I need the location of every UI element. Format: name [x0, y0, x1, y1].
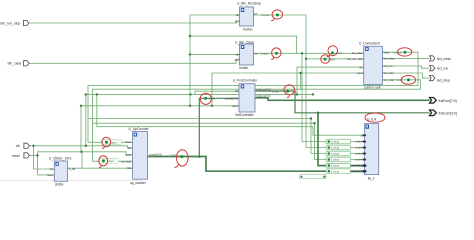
- debug marker fndCom out: [272, 90, 289, 94]
- svg-text:reset: reset: [125, 153, 131, 157]
- wire clk branch to U_Btn_RunStop clk: [190, 14, 239, 16]
- junction reset east riser: [211, 105, 213, 107]
- svg-text:count[13:0]: count[13:0]: [149, 152, 162, 156]
- wire net U_Btn_Clear out to control unit: [254, 52, 365, 54]
- ILA debug badge probe5: [326, 169, 351, 174]
- svg-text:U_Btn_Clear: U_Btn_Clear: [235, 41, 255, 45]
- svg-text:btn: btn: [235, 19, 239, 23]
- svg-text:led_stop: led_stop: [437, 79, 450, 83]
- svg-text:control_unit: control_unit: [364, 86, 381, 90]
- ILA debug badge probe2: [326, 151, 351, 156]
- svg-text:reset: reset: [357, 71, 363, 75]
- debug marker count to fnd: [204, 97, 216, 101]
- wire reset up branch: [38, 152, 133, 156]
- wire stub x=82: [81, 152, 83, 168]
- pin diamonds: [363, 134, 367, 136]
- svg-text:b_struct: b_struct: [331, 153, 340, 156]
- block U_Btn_Clear: [235, 41, 258, 70]
- svg-text:button: button: [239, 66, 248, 70]
- debug marker cu clear out: [394, 51, 407, 55]
- svg-text:clkDiv: clkDiv: [55, 183, 64, 187]
- svg-text:b_struct: b_struct: [331, 165, 340, 168]
- block U_Btn_RunStop: [235, 2, 261, 32]
- wire run_stop riser to ILA probe3: [93, 123, 364, 159]
- wire clk branch to U_FndController clk: [195, 91, 239, 94]
- junction clk btn_clear branch: [189, 53, 191, 55]
- wire btn_clear port to U_Btn_Clear btn pin: [29, 59, 240, 63]
- svg-text:clear: clear: [384, 50, 390, 54]
- junction clk riser top: [85, 93, 87, 95]
- block U_ClkDiv_10hz: [47, 156, 76, 186]
- svg-text:reset: reset: [232, 104, 238, 108]
- wire clk drop to clkDiv: [34, 146, 55, 169]
- debug marker counter run_stop in: [100, 159, 119, 164]
- svg-text:probe5[13:0]: probe5[13:0]: [349, 170, 364, 174]
- wire clk riser to ILA clk: [313, 127, 363, 136]
- wire led_run: [382, 66, 429, 68]
- svg-text:U_Btn_RunStop: U_Btn_RunStop: [237, 2, 261, 6]
- stub badge below ILA probe5: [300, 175, 327, 179]
- wire reset east to control unit: [212, 73, 364, 106]
- debug marker btn_run_stop out: [261, 13, 279, 17]
- svg-text:fndController: fndController: [236, 113, 255, 117]
- svg-text:1:output: 1:output: [261, 14, 270, 17]
- block U_FndController: [225, 79, 271, 117]
- svg-text:out: out: [254, 11, 258, 15]
- svg-text:fndFont[7:0]: fndFont[7:0]: [257, 94, 271, 98]
- svg-text:count[13:0]: count[13:0]: [225, 97, 238, 101]
- wire reset from port: [30, 154, 38, 156]
- wire clk branch to ILA via y=126.7: [97, 94, 313, 126]
- svg-text:1:outp: 1:outp: [170, 154, 177, 157]
- annotation red ellipse 8 counter clear: [102, 137, 111, 148]
- annotation red ellipse 10 count bus: [175, 150, 189, 168]
- svg-text:btn_run_stop: btn_run_stop: [347, 57, 363, 61]
- input port reset: [12, 153, 29, 158]
- junction reset fnd branch: [80, 105, 82, 107]
- ILA debug badge probe0: [326, 139, 351, 144]
- junction fndCom probe4: [317, 112, 320, 115]
- svg-text:fndCom[3:0]: fndCom[3:0]: [439, 112, 458, 116]
- annotation red ellipse 6 cu run_stop: [401, 76, 415, 85]
- svg-text:b_struct: b_struct: [331, 159, 340, 162]
- svg-text:clk: clk: [16, 144, 20, 148]
- wire btn_run_stop port to U_Btn_RunStop btn pin: [29, 21, 240, 23]
- wire clear net from control unit: [88, 52, 418, 142]
- ILA debug badge probe4: [326, 163, 351, 168]
- svg-text:run_stop: run_stop: [384, 78, 395, 82]
- annotation red ellipse 5 cu clear: [397, 48, 411, 56]
- debug marker cu btn_clear in: [331, 51, 343, 55]
- svg-text:out: out: [255, 52, 259, 56]
- svg-text:led_run: led_run: [437, 67, 448, 71]
- junction clk ila branch: [96, 93, 98, 95]
- annotation red ellipse 7 U_ILA title: [365, 113, 385, 122]
- svg-text:reset: reset: [12, 154, 20, 158]
- svg-text:btn: btn: [235, 58, 239, 62]
- wire clear riser to ILA probe2: [88, 119, 363, 154]
- wire reset to fndController: [81, 105, 239, 107]
- wire stub below reset junction: [300, 73, 302, 89]
- wire reset riser x=81: [80, 106, 82, 152]
- output bus port fndCom[3:0]: [430, 110, 458, 116]
- annotation red ellipse 12 fnd count in: [200, 93, 211, 104]
- annotation red ellipse 4 cu btn_run_stop: [321, 55, 330, 64]
- input port btn_clear: [8, 61, 30, 66]
- wire net U_Btn_RunStop out east: [253, 15, 307, 148]
- page boundary line: [0, 180, 142, 182]
- svg-text:1:output: 1:output: [260, 53, 269, 56]
- debug marker counter clear in: [103, 140, 122, 145]
- svg-text:reset: reset: [47, 173, 53, 177]
- svg-text:U_ClkDiv_10hz: U_ClkDiv_10hz: [49, 156, 72, 160]
- svg-text:1:input: 1:input: [209, 98, 216, 101]
- svg-text:1:outp: 1:outp: [272, 90, 279, 93]
- bus fndCom[3:0] to port: [255, 91, 430, 113]
- svg-text:led_stop: led_stop: [384, 71, 394, 75]
- ILA debug badge probe3: [326, 157, 351, 162]
- svg-text:up_counter: up_counter: [130, 181, 147, 185]
- svg-text:run_stop: run_stop: [121, 159, 132, 163]
- junction count riser bottom: [198, 155, 201, 158]
- svg-text:b_struct: b_struct: [331, 141, 340, 144]
- svg-text:ila_0: ila_0: [368, 176, 375, 180]
- debug marker count bus: [170, 154, 184, 158]
- annotation red ellipse 9 counter run_stop: [99, 156, 108, 168]
- bus count[13:0] to fndController: [199, 98, 239, 156]
- input port clk: [16, 143, 30, 148]
- input port btn_run_stop: [1, 20, 29, 25]
- junction reset port split: [36, 154, 38, 156]
- wire clk riser to control unit clk: [297, 67, 364, 94]
- wire btn_clear riser to ILA probe0: [302, 53, 363, 141]
- svg-text:led_clear: led_clear: [437, 57, 452, 61]
- wire led_clear: [382, 57, 429, 59]
- svg-text:button: button: [244, 27, 253, 31]
- junction btn_clear probe0: [301, 52, 303, 54]
- svg-text:probe4[3:0]: probe4[3:0]: [350, 164, 363, 168]
- svg-text:led_run: led_run: [384, 64, 393, 68]
- debug marker cu btn_run_stop in: [324, 58, 336, 62]
- svg-text:clear: clear: [125, 140, 131, 144]
- svg-text:b_struct: b_struct: [331, 170, 340, 173]
- junction clk cu riser: [296, 93, 298, 95]
- junction run_stop probe3 branch: [313, 122, 315, 124]
- junction clk port split: [32, 145, 34, 147]
- output port led_run: [430, 66, 449, 71]
- annotation red ellipse 3 cu btn_clear: [327, 45, 339, 57]
- wire clk branch y=36.1: [190, 36, 297, 53]
- svg-text:o_clk: o_clk: [69, 167, 76, 171]
- junction clk ila riser: [312, 93, 314, 95]
- svg-text:btn_clear: btn_clear: [352, 51, 363, 55]
- junction clk riser bottom: [85, 145, 87, 147]
- wire clkDiv o_clk to up_counter tick: [67, 167, 132, 169]
- output port led_clear: [430, 56, 452, 61]
- junction reset cu line: [299, 72, 301, 74]
- wire clk from port: [30, 146, 133, 148]
- svg-text:fndCom[3:0]: fndCom[3:0]: [257, 87, 271, 91]
- junction reset counter branch: [80, 151, 82, 153]
- block U_ControlUnit: [347, 42, 394, 90]
- svg-text:U_FndController: U_FndController: [233, 79, 258, 83]
- bus count[13:0] from up_counter: [148, 157, 364, 172]
- wire clk trunk vertical x=190: [189, 15, 191, 106]
- wire clk branch to U_Btn_Clear clk: [190, 53, 240, 55]
- junction clk main: [189, 93, 191, 95]
- block U_UpCounter: [121, 127, 162, 185]
- svg-text:led_clear: led_clear: [384, 57, 395, 61]
- debug marker btn_clear out: [260, 52, 278, 56]
- wire btn_run_stop to ILA probe1: [306, 147, 363, 149]
- wire clk main horizontal y=94.8: [86, 93, 313, 95]
- junction clear probe2 branch: [310, 117, 312, 119]
- junction btn_run_stop cu: [305, 58, 307, 60]
- wire run_stop net from control unit: [93, 80, 421, 161]
- wire clk north riser x=85.8: [85, 94, 87, 145]
- output bus port fndFont[7:0]: [430, 98, 457, 104]
- debug marker cu run_stop out: [396, 78, 410, 82]
- svg-text:btn_run_stop: btn_run_stop: [1, 21, 21, 25]
- junction clk y36 branch: [189, 35, 191, 37]
- wire led_stop: [382, 73, 429, 78]
- annotation red ellipse 1 btn_run_stop out: [271, 10, 282, 21]
- output port led_stop: [430, 76, 450, 83]
- svg-text:b_struct: b_struct: [331, 147, 340, 150]
- annotation red ellipse 11 fndCom out: [284, 85, 295, 98]
- bus fndCom riser to ILA probe4: [318, 113, 363, 166]
- svg-text:btn_clear: btn_clear: [8, 62, 23, 66]
- block U_ILA: [349, 117, 379, 180]
- ILA debug badge probe1: [326, 145, 351, 150]
- pin stubs all blocks: [53, 15, 384, 175]
- annotation red ellipse 2 btn_clear out: [271, 48, 281, 59]
- wire reset drop to clkDiv: [38, 155, 55, 175]
- svg-text:U_ControlUnit: U_ControlUnit: [359, 42, 380, 46]
- junction trunk reset cross: [189, 105, 191, 107]
- wire btn_run_stop into control unit: [306, 58, 364, 60]
- svg-text:fndFont[7:0]: fndFont[7:0]: [439, 99, 457, 103]
- bus fndFont[7:0] to port: [255, 98, 430, 101]
- svg-text:U_UpCounter: U_UpCounter: [129, 127, 150, 131]
